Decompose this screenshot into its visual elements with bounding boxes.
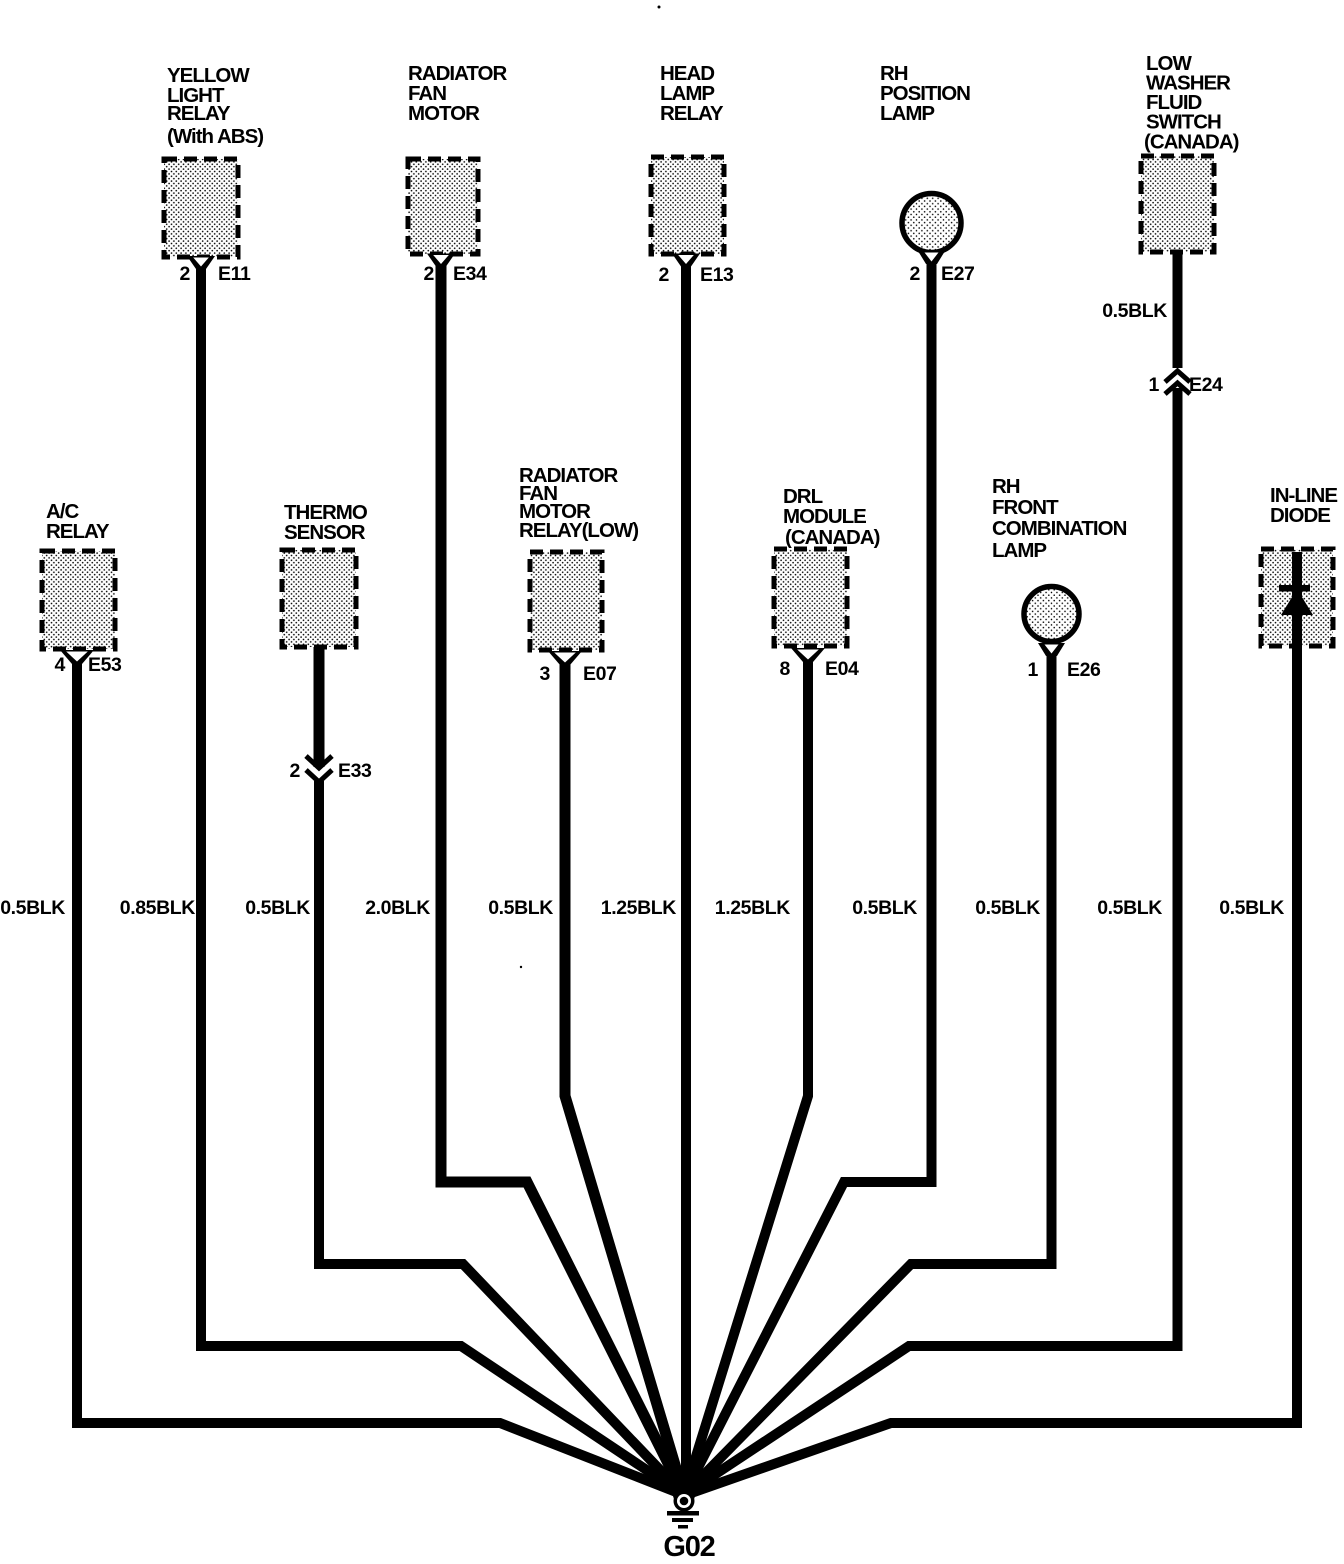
svg-text:2.0BLK: 2.0BLK [365, 897, 430, 919]
svg-text:4: 4 [55, 654, 66, 676]
svg-text:LAMP: LAMP [992, 539, 1046, 562]
svg-text:0.5BLK: 0.5BLK [975, 897, 1040, 919]
svg-text:0.5BLK: 0.5BLK [488, 897, 553, 919]
svg-text:LAMP: LAMP [880, 102, 934, 125]
svg-text:0.5BLK: 0.5BLK [1097, 897, 1162, 919]
svg-text:(CANADA): (CANADA) [1144, 131, 1239, 154]
svg-text:E27: E27 [941, 263, 975, 285]
svg-text:(With ABS): (With ABS) [167, 125, 263, 148]
svg-text:2: 2 [290, 760, 301, 782]
svg-text:DIODE: DIODE [1270, 504, 1330, 527]
svg-text:0.5BLK: 0.5BLK [245, 897, 310, 919]
svg-text:1: 1 [1149, 374, 1160, 396]
svg-text:RELAY: RELAY [660, 102, 724, 125]
svg-text:RELAY: RELAY [167, 102, 231, 125]
svg-text:E11: E11 [218, 263, 251, 285]
svg-text:RH: RH [992, 475, 1020, 498]
svg-text:G02: G02 [663, 1531, 714, 1563]
svg-text:FRONT: FRONT [992, 496, 1059, 519]
svg-text:1.25BLK: 1.25BLK [601, 897, 677, 919]
svg-text:SENSOR: SENSOR [284, 521, 366, 544]
svg-text:MOTOR: MOTOR [408, 102, 480, 125]
svg-text:2: 2 [659, 264, 670, 286]
svg-text:0.5BLK: 0.5BLK [1102, 300, 1167, 322]
svg-text:1.25BLK: 1.25BLK [715, 897, 791, 919]
svg-text:2: 2 [424, 263, 435, 285]
svg-text:E33: E33 [338, 760, 372, 782]
svg-text:2: 2 [910, 263, 921, 285]
svg-text:E34: E34 [453, 263, 487, 285]
svg-text:1: 1 [1028, 659, 1039, 681]
svg-text:RELAY(LOW): RELAY(LOW) [519, 519, 638, 542]
svg-text:E53: E53 [88, 654, 122, 676]
svg-text:E04: E04 [825, 658, 859, 680]
svg-text:MODULE: MODULE [783, 505, 866, 528]
svg-text:E24: E24 [1189, 374, 1223, 396]
svg-text:RELAY: RELAY [46, 520, 110, 543]
svg-text:E07: E07 [583, 663, 617, 685]
svg-text:E26: E26 [1067, 659, 1101, 681]
svg-text:3: 3 [540, 663, 551, 685]
svg-text:0.5BLK: 0.5BLK [1219, 897, 1284, 919]
svg-text:0.5BLK: 0.5BLK [0, 897, 65, 919]
svg-text:8: 8 [780, 658, 791, 680]
svg-text:0.5BLK: 0.5BLK [852, 897, 917, 919]
svg-text:0.85BLK: 0.85BLK [120, 897, 196, 919]
svg-text:(CANADA): (CANADA) [785, 526, 880, 549]
svg-text:E13: E13 [700, 264, 734, 286]
svg-text:2: 2 [180, 263, 191, 285]
svg-text:COMBINATION: COMBINATION [992, 517, 1127, 540]
